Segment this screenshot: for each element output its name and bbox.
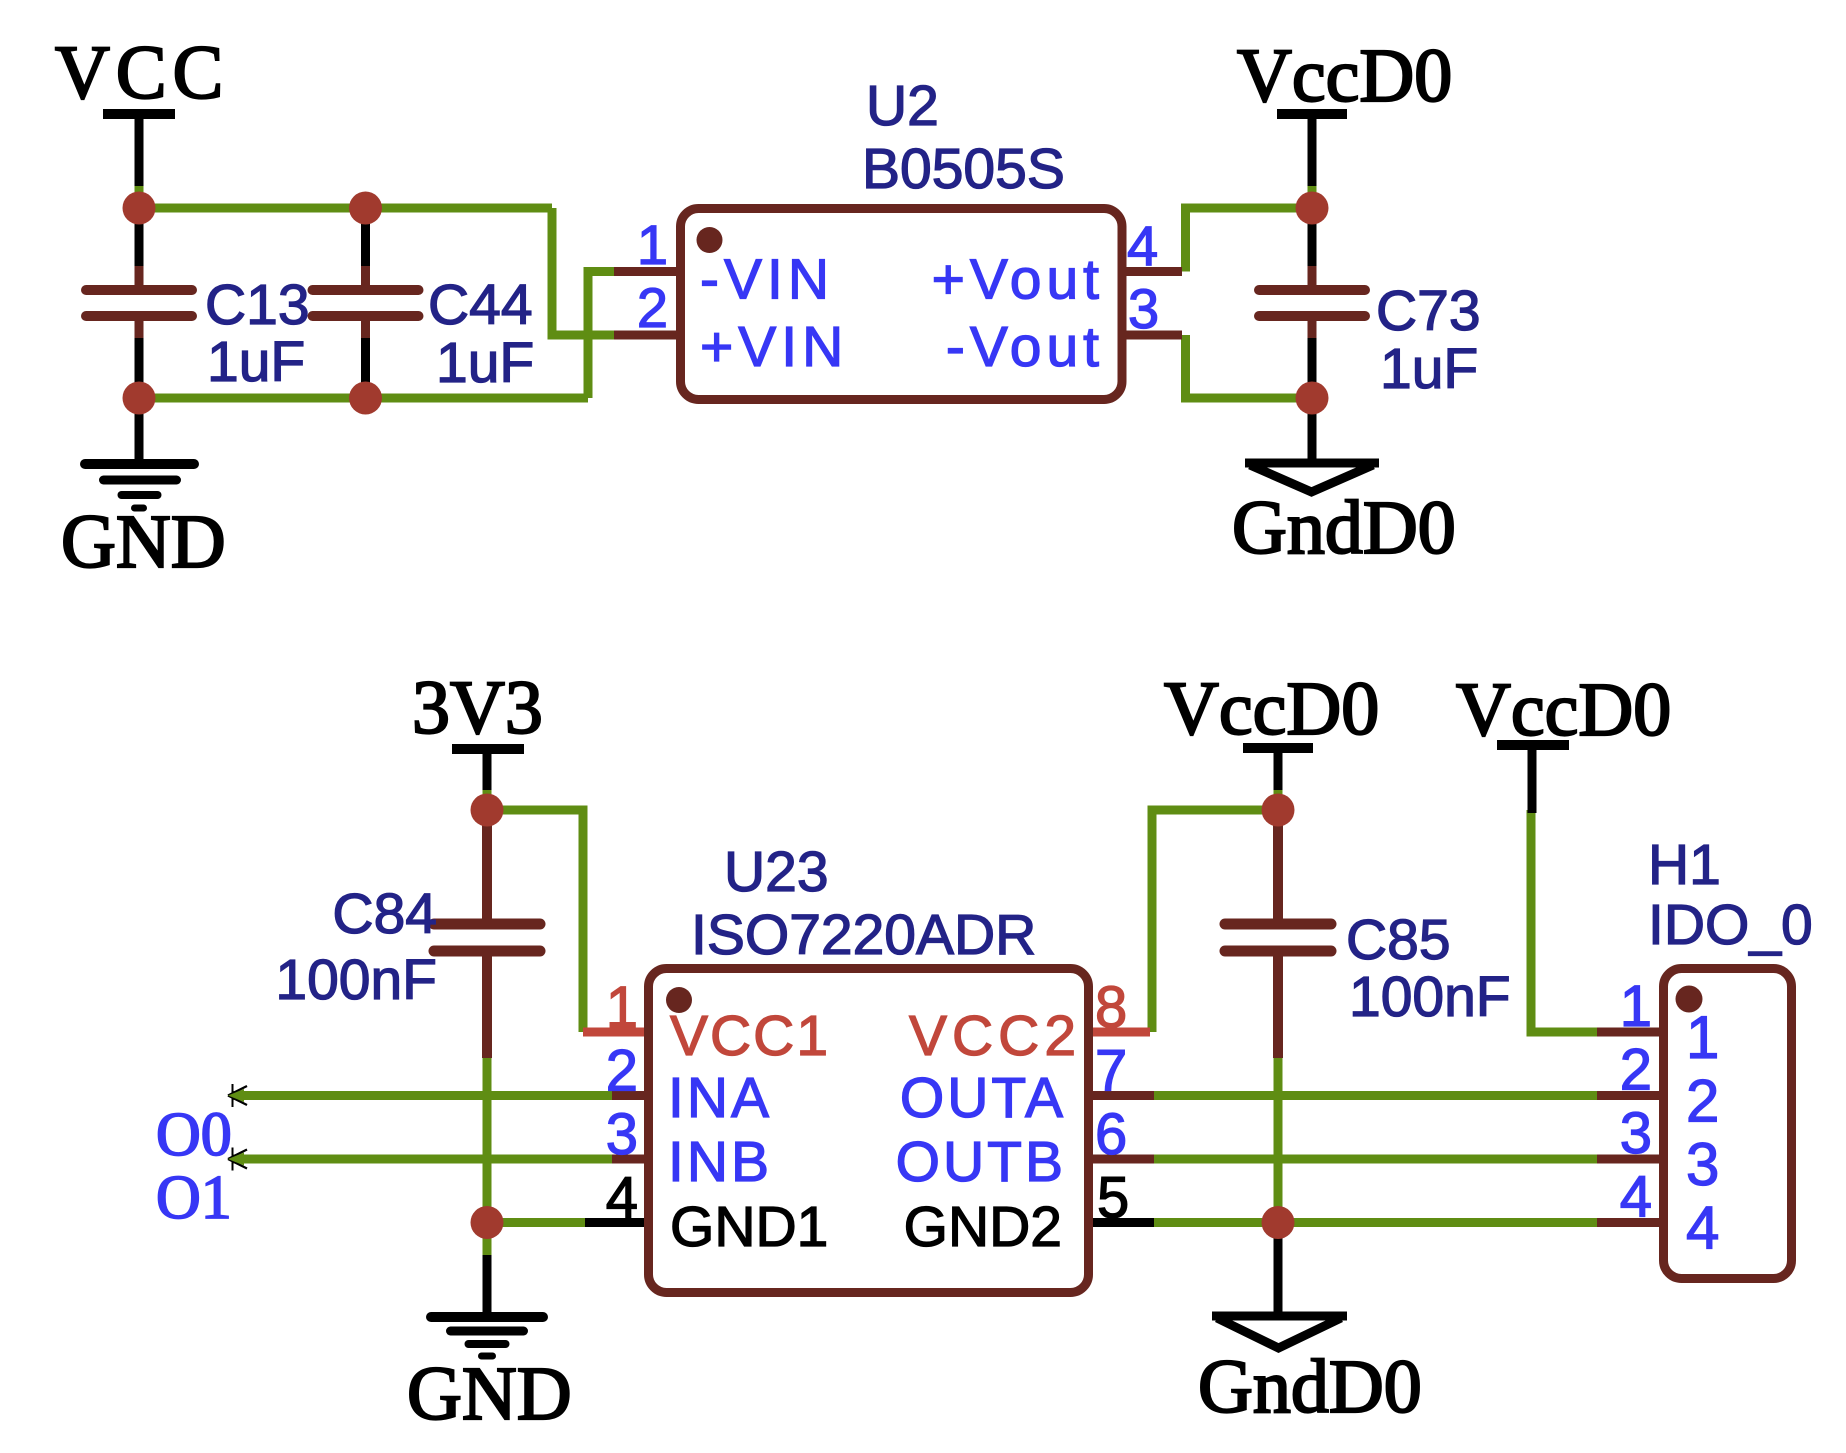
power symbol VccD0 (bottom left) — [1164, 667, 1379, 810]
svg-text:1: 1 — [1686, 1004, 1719, 1071]
wire GND rail to U2 pin 1 — [588, 272, 616, 399]
svg-text:OUTB: OUTB — [896, 1130, 1066, 1194]
wire 3V3 rail to U23 pin 1 — [487, 810, 583, 1032]
svg-text:1uF: 1uF — [207, 330, 305, 394]
svg-text:C73: C73 — [1376, 279, 1481, 343]
wire net O1 to U23 pin INB — [233, 1155, 616, 1164]
svg-text:+VIN: +VIN — [700, 315, 848, 379]
svg-text:O1: O1 — [156, 1164, 232, 1232]
H1 pin 2 stub — [1597, 1091, 1663, 1100]
wire junction to GND symbol — [483, 1223, 492, 1258]
U23 pin 4 stub — [585, 1218, 650, 1227]
svg-text:1: 1 — [1620, 974, 1652, 1039]
svg-text:C44: C44 — [428, 273, 533, 337]
H1 pin 4 stub — [1597, 1218, 1663, 1227]
svg-text:U23: U23 — [724, 840, 829, 904]
svg-text:GND: GND — [407, 1352, 572, 1436]
svg-text:O0: O0 — [156, 1101, 232, 1169]
capacitor C84 — [275, 810, 540, 1058]
svg-text:OUTA: OUTA — [900, 1066, 1066, 1130]
junction VccD0 / C73 — [1296, 192, 1329, 225]
connector H1 IDO_0 body — [1664, 969, 1792, 1279]
svg-text:4: 4 — [1127, 214, 1158, 277]
svg-text:INA: INA — [668, 1066, 772, 1130]
svg-text:4: 4 — [1686, 1195, 1719, 1262]
junction GND rail / C13 — [123, 382, 156, 415]
svg-text:2: 2 — [637, 276, 668, 339]
svg-text:6: 6 — [1095, 1102, 1127, 1167]
U23 pin 8 stub — [1086, 1028, 1150, 1037]
power symbol 3V3 — [412, 666, 543, 810]
wire net O0 to U23 pin INA — [233, 1091, 616, 1100]
power symbol VccD0 (bottom right) — [1456, 668, 1671, 813]
svg-text:INB: INB — [668, 1130, 772, 1194]
capacitor C44 — [313, 222, 535, 395]
svg-text:1: 1 — [637, 213, 668, 276]
wire VCC rail to U2 pin 2 — [552, 208, 616, 335]
power symbol VccD0 (top) — [1237, 34, 1452, 208]
svg-text:GND: GND — [61, 500, 226, 584]
ground GndD0 (bottom) — [1198, 1223, 1422, 1430]
U23 pin 2 stub — [612, 1091, 650, 1100]
junction GND1 / C84 — [471, 1206, 504, 1239]
H1 pin 1 stub — [1597, 1028, 1663, 1037]
svg-text:1uF: 1uF — [436, 331, 534, 395]
svg-text:7: 7 — [1095, 1039, 1127, 1104]
capacitor C13 — [86, 222, 310, 394]
U23 pin-1 marker dot — [666, 987, 692, 1013]
svg-text:2: 2 — [606, 1039, 638, 1104]
H1 pin-1 marker dot — [1676, 986, 1703, 1013]
IC U2 B0505S body — [681, 209, 1123, 400]
junction VCC rail / C44 — [349, 192, 382, 225]
wire U2 pin 4 to VccD0 rail — [1186, 208, 1313, 272]
U23 pin 3 stub — [612, 1155, 650, 1164]
svg-text:4: 4 — [1620, 1165, 1652, 1230]
wire GND bottom rail — [139, 394, 588, 403]
svg-text:VccD0: VccD0 — [1164, 667, 1379, 751]
wire GND2 to H1 pin 4 — [1153, 1218, 1600, 1227]
U2 pin 1 stub — [614, 267, 680, 276]
junction VCC rail / C13 — [123, 192, 156, 225]
svg-text:IDO_0: IDO_0 — [1648, 893, 1813, 957]
svg-text:VccD0: VccD0 — [1237, 34, 1452, 118]
svg-text:100nF: 100nF — [1349, 965, 1511, 1029]
svg-text:VccD0: VccD0 — [1456, 668, 1671, 752]
wire U23 pin 8 to VccD0 — [1152, 810, 1278, 1032]
wire VccD0 to H1 pin 1 — [1531, 810, 1600, 1032]
svg-text:5: 5 — [1097, 1166, 1129, 1231]
wire U2 pin 3 to GndD0 rail — [1186, 335, 1313, 398]
svg-text:3: 3 — [1620, 1101, 1652, 1166]
wire OUTB to H1 pin 3 — [1153, 1155, 1600, 1164]
wire OUTA to H1 pin 2 — [1153, 1091, 1600, 1100]
svg-text:1uF: 1uF — [1380, 337, 1478, 401]
svg-text:GND2: GND2 — [904, 1195, 1062, 1259]
arrow dangling end of O1 wire — [228, 1148, 247, 1171]
svg-text:VCC2: VCC2 — [909, 1004, 1081, 1068]
U2 pin 3 stub — [1120, 331, 1182, 340]
U23 pin 1 stub — [583, 1028, 650, 1037]
svg-text:-VIN: -VIN — [700, 248, 834, 312]
U2 pin-1 marker dot — [697, 227, 723, 253]
svg-text:100nF: 100nF — [275, 948, 437, 1012]
svg-text:+Vout: +Vout — [932, 248, 1104, 312]
svg-text:4: 4 — [606, 1166, 638, 1231]
wire C84 to GND1 junction — [483, 1058, 492, 1223]
wire C85 to GND2 junction — [1274, 1058, 1283, 1223]
U23 pin 7 stub — [1086, 1091, 1154, 1100]
wire VCC top rail — [139, 204, 552, 213]
svg-text:3V3: 3V3 — [412, 666, 543, 750]
junction VccD0 / C85 — [1262, 794, 1295, 827]
junction GND2 / C85 — [1262, 1206, 1295, 1239]
svg-text:3: 3 — [606, 1102, 638, 1167]
ground GND (bottom) — [407, 1255, 572, 1436]
svg-text:8: 8 — [1095, 975, 1127, 1040]
power symbol VCC — [55, 31, 229, 208]
U2 pin 2 stub — [614, 331, 680, 340]
svg-text:VCC: VCC — [55, 31, 229, 115]
junction 3V3 / C84 — [471, 794, 504, 827]
svg-text:C85: C85 — [1346, 908, 1451, 972]
svg-text:3: 3 — [1128, 277, 1159, 340]
capacitor C85 — [1225, 810, 1511, 1058]
junction GND rail / C44 — [349, 382, 382, 415]
U23 pin 5 stub — [1086, 1218, 1154, 1227]
capacitor C73 — [1259, 222, 1481, 401]
U2 pin 4 stub — [1120, 267, 1182, 276]
svg-text:GndD0: GndD0 — [1198, 1345, 1422, 1429]
ground GndD0 (top right) — [1232, 410, 1456, 570]
svg-text:GND1: GND1 — [670, 1195, 828, 1259]
svg-text:C84: C84 — [332, 882, 437, 946]
svg-text:H1: H1 — [1648, 833, 1721, 897]
svg-text:ISO7220ADR: ISO7220ADR — [691, 903, 1036, 967]
svg-text:GndD0: GndD0 — [1232, 486, 1456, 570]
H1 pin 3 stub — [1597, 1155, 1663, 1164]
svg-text:3: 3 — [1686, 1131, 1719, 1198]
svg-text:1: 1 — [606, 975, 638, 1040]
IC U23 ISO7220ADR body — [649, 969, 1089, 1293]
junction GndD0 / C73 — [1296, 382, 1329, 415]
svg-text:2: 2 — [1620, 1038, 1652, 1103]
svg-text:VCC1: VCC1 — [670, 1004, 830, 1068]
svg-text:2: 2 — [1686, 1068, 1719, 1135]
svg-text:B0505S: B0505S — [862, 137, 1065, 201]
ground GND (top left) — [61, 410, 226, 584]
arrow dangling end of O0 wire — [228, 1084, 247, 1107]
svg-text:-Vout: -Vout — [946, 315, 1104, 379]
svg-text:U2: U2 — [866, 74, 939, 138]
svg-text:C13: C13 — [205, 273, 310, 337]
U23 pin 6 stub — [1086, 1155, 1154, 1164]
wire GND rail to U23 pin 4 — [487, 1218, 587, 1227]
